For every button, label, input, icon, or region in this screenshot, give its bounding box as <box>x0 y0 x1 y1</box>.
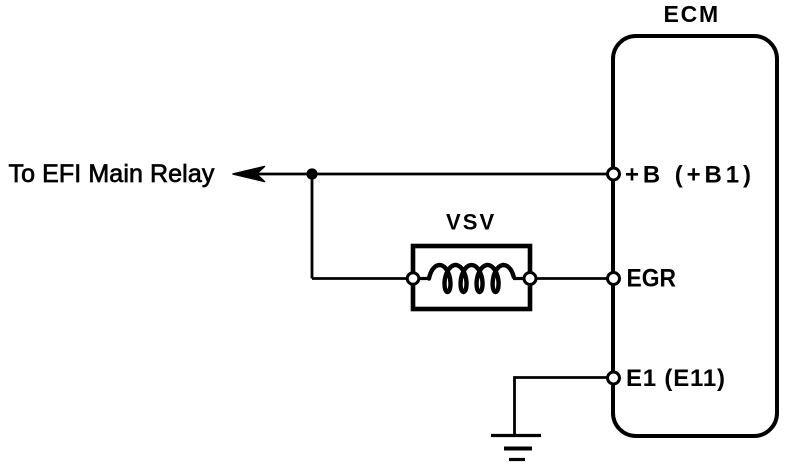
wire coil lead right <box>513 277 525 280</box>
terminal circle VSV right <box>524 273 536 285</box>
coil L1 inside VSV <box>429 265 514 292</box>
arrowhead To EFI Main Relay <box>233 167 265 182</box>
svg-text:ECM: ECM <box>664 1 721 27</box>
svg-text:To EFI Main Relay: To EFI Main Relay <box>9 160 215 188</box>
svg-text:EGR: EGR <box>627 265 677 293</box>
wire E1 to ground <box>515 378 608 436</box>
VSV box <box>413 246 530 309</box>
ground <box>491 436 541 460</box>
svg-text:+B (+B1): +B (+B1) <box>625 162 755 189</box>
wire junction down <box>311 174 314 279</box>
wire +B to arrow <box>254 173 609 176</box>
terminal circle VSV left <box>407 273 419 285</box>
svg-text:VSV: VSV <box>446 210 496 235</box>
svg-text:E1 (E11): E1 (E11) <box>626 365 726 392</box>
terminal circle +B <box>608 168 620 180</box>
wire coil lead left <box>418 277 430 280</box>
terminal circle E1 <box>608 372 620 384</box>
wire VSV to EGR terminal <box>536 277 608 280</box>
node junction on +B wire <box>306 168 317 179</box>
ECM box <box>613 36 777 436</box>
wire to VSV left terminal <box>312 277 409 280</box>
terminal circle EGR <box>608 273 620 285</box>
